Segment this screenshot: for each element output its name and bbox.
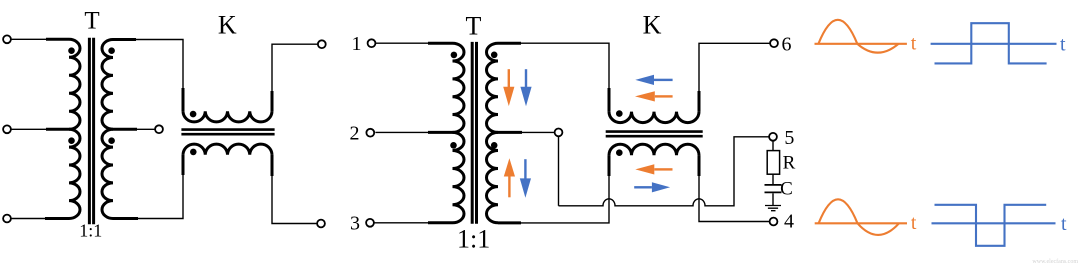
svg-text:K: K bbox=[643, 11, 662, 40]
terminal top-left bbox=[3, 35, 11, 43]
ground bbox=[772, 193, 774, 205]
K bottom winding (middle) bbox=[609, 144, 699, 155]
svg-text:3: 3 bbox=[350, 213, 360, 235]
terminal 1 bbox=[368, 39, 376, 47]
transformer T core (left) bbox=[89, 38, 93, 225]
wire middle-right lead bbox=[113, 128, 155, 130]
sine wave top bbox=[818, 20, 898, 53]
T secondary winding lower (left) bbox=[102, 129, 113, 218]
svg-text:K: K bbox=[218, 11, 237, 40]
wire T top to K top bbox=[113, 40, 183, 112]
terminal middle-right of T bbox=[155, 125, 163, 133]
svg-text:C: C bbox=[780, 178, 793, 199]
terminal middle-left bbox=[3, 125, 11, 133]
terminal 5 bbox=[769, 133, 777, 141]
svg-text:www.elecfans.com: www.elecfans.com bbox=[1032, 258, 1078, 265]
wire T bottom to K bottom bbox=[113, 155, 183, 219]
svg-text:t: t bbox=[1061, 213, 1067, 235]
wire K top-right to terminal bbox=[272, 44, 318, 111]
wire terminal2 lead bbox=[375, 131, 452, 133]
current arrow blue left (K top, middle) bbox=[635, 75, 672, 85]
svg-text:t: t bbox=[911, 212, 917, 234]
current arrow blue right (K bottom, middle) bbox=[634, 182, 670, 192]
current arrow orange left (K top, middle) bbox=[635, 91, 673, 101]
terminal center tap node bbox=[555, 129, 563, 137]
T primary winding upper (middle) bbox=[453, 43, 465, 132]
wire T top to K top (middle) bbox=[498, 43, 609, 111]
polarity dot T lower-left bbox=[68, 137, 75, 144]
wire terminal3 lead bbox=[374, 222, 453, 224]
terminal 6 bbox=[770, 39, 778, 47]
T primary winding lower (middle) bbox=[453, 132, 465, 222]
svg-text:2: 2 bbox=[350, 123, 360, 145]
transformer T core (middle) bbox=[472, 42, 476, 224]
polarity dot T lower-right (middle) bbox=[491, 142, 498, 149]
polarity dot K top (left) bbox=[190, 111, 197, 118]
axis t (square bottom) bbox=[932, 222, 1056, 224]
axis t (sine bottom) bbox=[815, 222, 907, 224]
wire T bottom to K bottom (middle) bbox=[498, 155, 609, 223]
svg-text:1: 1 bbox=[352, 33, 362, 55]
svg-text:6: 6 bbox=[782, 33, 792, 55]
polarity dot T upper-right (middle) bbox=[491, 52, 498, 59]
current arrow blue down (T upper, middle) bbox=[520, 69, 531, 106]
coupled coil K core (left) bbox=[181, 130, 274, 135]
T secondary winding upper (left) bbox=[102, 40, 113, 130]
terminal bottom-left bbox=[3, 215, 11, 223]
wire K bottom-right to terminal bbox=[272, 155, 317, 224]
wire center tap vertical drop bbox=[558, 136, 560, 206]
K top winding (left) bbox=[183, 111, 272, 122]
current arrow orange left (K bottom, middle) bbox=[635, 164, 672, 174]
polarity dot K bottom (left) bbox=[190, 149, 197, 156]
svg-text:1:1: 1:1 bbox=[457, 225, 490, 254]
polarity dot T upper-right bbox=[108, 47, 115, 54]
wire K top-right to terminal 6 bbox=[699, 43, 770, 111]
capacitor C bbox=[772, 174, 774, 184]
polarity dot T upper-left bbox=[68, 47, 75, 54]
axis t (sine top) bbox=[815, 43, 907, 45]
K bottom winding (left) bbox=[183, 144, 272, 155]
K top winding (middle) bbox=[609, 112, 699, 123]
wire top-left lead bbox=[11, 38, 69, 40]
svg-text:t: t bbox=[911, 33, 917, 55]
polarity dot K top (middle) bbox=[616, 110, 623, 117]
polarity dot K bottom (middle) bbox=[616, 149, 623, 156]
wire K bottom-right to terminal 4 bbox=[699, 155, 770, 221]
svg-text:T: T bbox=[84, 8, 99, 35]
wire center tap bbox=[498, 131, 555, 133]
T secondary winding upper (middle) bbox=[487, 43, 499, 132]
current arrow orange down (T upper, middle) bbox=[503, 69, 514, 106]
terminal 3 bbox=[366, 219, 374, 227]
terminal 4 bbox=[770, 218, 778, 226]
T primary winding lower (left) bbox=[69, 129, 80, 218]
terminal 2 bbox=[366, 129, 374, 137]
current arrow orange up (T lower, middle) bbox=[504, 158, 515, 197]
wire hop line from center tap to terminal 5 riser bbox=[559, 137, 770, 206]
axis t (square top) bbox=[931, 43, 1057, 45]
svg-text:T: T bbox=[466, 12, 482, 41]
polarity dot T upper-left (middle) bbox=[451, 52, 458, 59]
svg-text:5: 5 bbox=[784, 127, 794, 149]
current arrow blue down (T lower, middle) bbox=[520, 159, 531, 198]
polarity dot T lower-right bbox=[108, 137, 115, 144]
T secondary winding lower (middle) bbox=[487, 132, 499, 222]
resistor R bbox=[772, 141, 774, 151]
square wave bottom bbox=[935, 205, 1047, 246]
svg-text:4: 4 bbox=[784, 211, 794, 233]
svg-text:R: R bbox=[783, 152, 796, 173]
terminal bottom-right of K bbox=[317, 220, 325, 228]
polarity dot T lower-left (middle) bbox=[450, 142, 457, 149]
coupled coil K core (middle) bbox=[606, 132, 703, 137]
square wave top bbox=[935, 23, 1047, 63]
T primary winding upper (left) bbox=[69, 39, 80, 129]
wire middle-left lead bbox=[11, 128, 69, 130]
svg-text:t: t bbox=[1060, 34, 1066, 56]
sine wave bottom bbox=[819, 199, 899, 235]
wire terminal1 lead bbox=[375, 42, 452, 44]
wire bottom-left lead bbox=[11, 218, 69, 220]
terminal top-right of K bbox=[318, 40, 326, 48]
